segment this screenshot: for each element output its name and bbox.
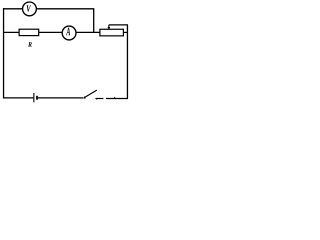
wire: rheostat right terminal stub to right vertical: [123, 31, 128, 33]
wire: voltmeter branch vertical down to row 2 junction: [93, 8, 95, 32]
label R: [28, 42, 32, 47]
wire: row 2 from left vertical to resistor R: [3, 31, 19, 33]
ammeter A: [62, 26, 76, 40]
wire: top horizontal, voltmeter to right corner: [37, 8, 94, 10]
junction tick on bottom wire: [114, 97, 116, 99]
battery cell: [34, 93, 38, 102]
wire: bottom left from corner to battery: [3, 97, 33, 99]
wire: top horizontal, left segment to voltmeter: [3, 8, 22, 10]
rheostat slider arrow: [108, 25, 111, 30]
wire: ammeter to rheostat left terminal (through junction): [76, 31, 100, 33]
resistor R: [19, 29, 39, 35]
wire: slider tap horizontal to right vertical: [109, 24, 128, 26]
wire: switch to junction tick: [97, 98, 104, 100]
wire: bottom right to corner: [106, 98, 128, 100]
wire: left vertical (battery negative up to top-left corner): [3, 8, 5, 98]
wire: right vertical down to bottom-right corner: [126, 25, 128, 99]
voltmeter V: [23, 2, 37, 16]
wire: resistor to ammeter: [39, 31, 63, 33]
rheostat body: [100, 29, 124, 36]
wire: battery to switch: [38, 97, 83, 99]
switch S (open): [83, 90, 97, 100]
